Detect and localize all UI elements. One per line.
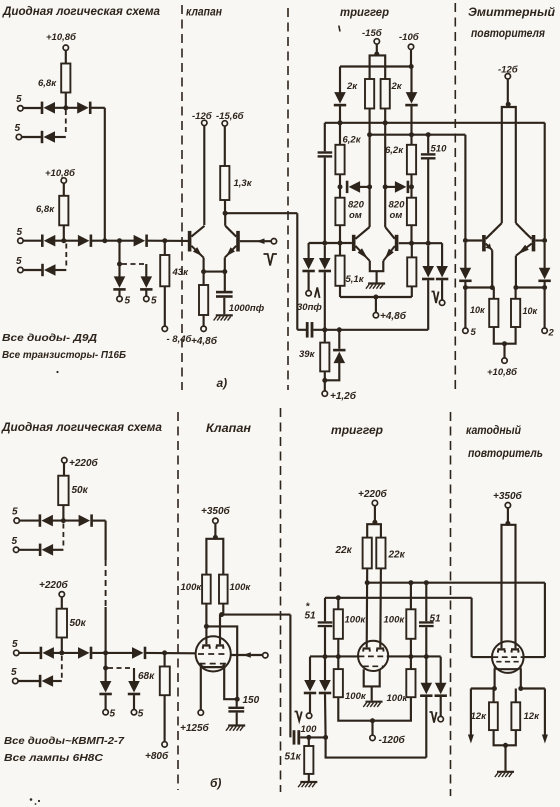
node j4 bbox=[162, 238, 167, 243]
svg-text:5: 5 bbox=[12, 639, 18, 650]
transistor Q4 (trigger right) bbox=[383, 227, 398, 261]
wire -12V rail bbox=[203, 126, 205, 225]
output wire left with arrow bbox=[468, 689, 474, 744]
wire bbox=[503, 344, 505, 358]
diode D7 (input row4) bbox=[41, 264, 55, 276]
wire bbox=[338, 330, 340, 349]
coupling capacitor 51 (left) bbox=[305, 602, 333, 628]
wire corner down bbox=[105, 521, 107, 560]
terminal -15V (trigger) bbox=[362, 28, 383, 44]
svg-text:100к: 100к bbox=[345, 691, 367, 702]
clamp diode (b right) bbox=[128, 681, 140, 695]
terminal +10.8V (block1) bbox=[46, 32, 77, 50]
diode D2 (series, row1) bbox=[77, 102, 91, 114]
bias resistor (right) bbox=[407, 257, 416, 286]
svg-text:+4,8б: +4,8б bbox=[191, 335, 218, 347]
svg-text:повторитель: повторитель bbox=[468, 448, 543, 460]
wire valve output to trigger bbox=[225, 212, 297, 214]
svg-text:5: 5 bbox=[138, 709, 144, 720]
input terminal (trigger left) bbox=[306, 291, 311, 296]
wire bbox=[339, 174, 341, 197]
V1 cathode lead left bbox=[200, 666, 202, 710]
svg-text:5: 5 bbox=[125, 296, 131, 307]
wire bbox=[544, 243, 546, 268]
wire bbox=[324, 694, 327, 737]
ground (51k) bbox=[298, 782, 317, 787]
collector wire (left) bbox=[369, 109, 371, 228]
wire bbox=[410, 106, 412, 135]
diode (b-row3) bbox=[40, 647, 54, 659]
diode (b-row4) bbox=[39, 675, 53, 687]
node bbox=[502, 341, 507, 346]
wire bbox=[339, 243, 341, 256]
cross line2 corner to left base bbox=[464, 135, 466, 241]
svg-text:6,8к: 6,8к bbox=[36, 204, 55, 215]
wire bbox=[371, 686, 373, 700]
input terminal (b trigger right) bbox=[438, 716, 443, 721]
svg-text:2к: 2к bbox=[346, 81, 358, 92]
wire bbox=[22, 136, 41, 138]
svg-text:39к: 39к bbox=[299, 349, 316, 360]
capacitor 1000pF bbox=[216, 291, 265, 314]
resistor 50k (block1) bbox=[58, 476, 88, 505]
wire bbox=[337, 639, 339, 657]
svg-text:+125б: +125б bbox=[180, 722, 210, 734]
svg-text:5: 5 bbox=[15, 123, 21, 134]
output terminal 5 (follower) bbox=[463, 327, 477, 338]
input terminal 5 (b-row3) bbox=[12, 639, 19, 656]
node bbox=[409, 241, 414, 246]
cross line 2 (bottom) bbox=[325, 597, 472, 599]
svg-text:5: 5 bbox=[151, 296, 157, 307]
steering diode (left) bbox=[334, 92, 346, 106]
wire left grid bbox=[472, 656, 493, 658]
node bbox=[383, 120, 388, 125]
node bbox=[408, 580, 413, 585]
svg-text:1,3к: 1,3к bbox=[234, 178, 253, 189]
resistor 39k bbox=[299, 343, 329, 372]
svg-text:6,8к: 6,8к bbox=[38, 78, 57, 89]
wire bbox=[516, 223, 525, 232]
resistor 820 ohm (left) bbox=[335, 198, 364, 226]
strobe terminal (valve) bbox=[271, 239, 276, 244]
wire bbox=[506, 730, 516, 745]
svg-text:100: 100 bbox=[301, 724, 318, 735]
wire bbox=[515, 256, 517, 288]
node bbox=[338, 120, 343, 125]
wire bbox=[23, 269, 41, 271]
resistor 6.2k (right) bbox=[385, 145, 416, 175]
svg-text:5: 5 bbox=[11, 667, 17, 678]
svg-text:+10,8б: +10,8б bbox=[487, 367, 518, 378]
input terminal 5 (row4) bbox=[16, 256, 23, 273]
wire base left bbox=[465, 239, 482, 241]
terminal -120V bbox=[370, 734, 406, 746]
node bbox=[365, 580, 370, 585]
wire bbox=[63, 463, 65, 476]
svg-text:триггер: триггер bbox=[331, 425, 383, 437]
wire Q2 emitter bbox=[224, 258, 226, 272]
svg-text:+350б: +350б bbox=[201, 505, 231, 517]
wire bbox=[145, 291, 147, 297]
wire bbox=[118, 291, 120, 297]
wire bbox=[325, 363, 340, 381]
wire bbox=[425, 627, 427, 656]
separator between trigger and follower (top) bbox=[454, 3, 456, 390]
input terminal 5 (b-row2) bbox=[12, 536, 19, 553]
through diode (b right) bbox=[420, 683, 432, 697]
wire bbox=[308, 737, 310, 746]
wire bbox=[376, 44, 378, 55]
terminal 5 (clamp right) bbox=[144, 296, 157, 307]
svg-text:-15,6б: -15,6б bbox=[216, 111, 245, 122]
steering diode (right) bbox=[405, 92, 417, 106]
wire bbox=[296, 213, 298, 330]
wire bbox=[53, 549, 64, 551]
node bbox=[409, 132, 414, 137]
node bbox=[323, 654, 328, 659]
coupling capacitor 51 (right) bbox=[419, 614, 441, 628]
wire bbox=[19, 549, 39, 551]
wire bbox=[324, 657, 326, 681]
strobe wire (b valve) bbox=[231, 654, 263, 656]
terminal +350V (follower) bbox=[493, 490, 523, 508]
svg-text:+220б: +220б bbox=[358, 488, 388, 500]
wire bbox=[324, 627, 326, 656]
node bbox=[463, 285, 468, 290]
wire bbox=[289, 615, 291, 738]
wire bbox=[427, 280, 429, 330]
node bbox=[367, 132, 372, 137]
dashed tie bbox=[61, 656, 63, 679]
terminal +350V (valve) bbox=[201, 505, 231, 524]
through diode (right) bbox=[422, 266, 434, 280]
V1 cathode lead right bbox=[224, 666, 237, 699]
wire bbox=[464, 282, 466, 328]
diode (b-row2) bbox=[39, 544, 53, 556]
svg-text:+4,8б: +4,8б bbox=[380, 310, 407, 322]
coupling capacitor 510 bbox=[421, 144, 447, 160]
node bbox=[424, 580, 429, 585]
node j2 bbox=[61, 238, 66, 243]
resistor 820 ohm (right) bbox=[389, 198, 417, 226]
V2 cathode bbox=[364, 669, 380, 686]
input diode (right outer) bbox=[436, 266, 448, 280]
V1 grid1 dashes bbox=[198, 653, 229, 655]
note: all diodes D9D bbox=[2, 332, 97, 344]
wire bbox=[324, 598, 326, 622]
resistor 12k (right) bbox=[511, 702, 540, 730]
input diode (b trigger left outer) bbox=[304, 680, 316, 694]
V2 anode plates bbox=[362, 647, 384, 651]
dashed link bbox=[108, 667, 132, 669]
svg-text:100к: 100к bbox=[387, 693, 409, 704]
wire bbox=[324, 246, 326, 259]
resistor 6.8k (block1) bbox=[38, 64, 70, 93]
cross line1 corner to right base bbox=[544, 123, 546, 241]
terminal +1.2V bbox=[322, 390, 357, 402]
wire bbox=[23, 107, 41, 109]
wire bbox=[425, 583, 427, 622]
wire bbox=[236, 713, 238, 725]
node bbox=[322, 378, 327, 383]
wire bbox=[63, 183, 65, 196]
wire bbox=[427, 246, 429, 267]
wire bbox=[507, 508, 509, 525]
input capacitor 30pF bbox=[306, 322, 314, 338]
label a) bbox=[217, 376, 228, 390]
svg-text:+10,8б: +10,8б bbox=[45, 168, 76, 179]
resistor 51k bbox=[285, 746, 314, 774]
section title: emitter follower (top) bbox=[468, 7, 555, 40]
wire bbox=[505, 327, 516, 344]
wire bbox=[224, 200, 226, 213]
diode D5 (series) bbox=[78, 235, 92, 247]
wire bbox=[504, 745, 506, 771]
transistor Q3 (trigger left) bbox=[352, 227, 370, 261]
bias wire +4.8V bbox=[340, 296, 412, 298]
svg-text:-15б: -15б bbox=[362, 28, 383, 39]
wire bbox=[411, 286, 413, 297]
wire bbox=[219, 615, 221, 645]
V1 cathode dish bbox=[201, 663, 225, 667]
output wire right with arrow bbox=[542, 689, 548, 744]
svg-text:50к: 50к bbox=[72, 485, 89, 496]
svg-text:6,2к: 6,2к bbox=[385, 145, 404, 156]
wire bbox=[493, 288, 495, 299]
svg-text:ом: ом bbox=[390, 210, 403, 221]
output diode (left) bbox=[459, 268, 471, 282]
svg-text:820: 820 bbox=[348, 200, 365, 211]
wire bbox=[324, 371, 326, 391]
diode series (b1) bbox=[79, 514, 93, 526]
node bbox=[103, 650, 108, 655]
node bbox=[463, 238, 468, 243]
wire bbox=[337, 598, 339, 610]
svg-text:1000пф: 1000пф bbox=[229, 303, 265, 314]
node bbox=[338, 241, 343, 246]
node bbox=[372, 520, 377, 525]
node j3 from block1 bbox=[102, 238, 107, 243]
svg-text:5: 5 bbox=[17, 227, 23, 238]
wire bbox=[55, 107, 78, 109]
wire bbox=[339, 123, 341, 145]
ground (b follower) bbox=[495, 772, 514, 777]
node bbox=[373, 295, 378, 300]
resistor 6.8k (block2) bbox=[36, 196, 68, 226]
bottom wire (b trigger) bbox=[326, 737, 427, 757]
terminal -15.6V bbox=[216, 111, 245, 126]
wire bbox=[236, 699, 238, 706]
resistor 22k (left) bbox=[335, 538, 372, 569]
scan artifact dot mid-left bbox=[56, 371, 58, 373]
clamp diode D9 bbox=[140, 276, 152, 290]
node hang tap bbox=[117, 238, 122, 243]
svg-text:10к: 10к bbox=[470, 305, 485, 315]
wire bbox=[375, 297, 377, 313]
transistor Q2 (valve right) bbox=[225, 226, 240, 258]
resistor 5.1k bbox=[335, 256, 364, 286]
input terminal 5 (row1) bbox=[16, 94, 23, 111]
coupling capacitor 100pF bbox=[293, 730, 301, 744]
wire bbox=[118, 241, 120, 264]
wire bbox=[494, 730, 506, 745]
wire bbox=[203, 315, 205, 326]
resistor 10k (left) bbox=[470, 299, 498, 327]
node bbox=[322, 327, 327, 332]
wire bbox=[133, 695, 135, 710]
wire bbox=[471, 687, 495, 689]
tube V1 (valve) bbox=[196, 636, 231, 671]
svg-text:5: 5 bbox=[110, 709, 116, 720]
input terminal (trigger right) bbox=[439, 300, 444, 305]
wire bbox=[205, 604, 207, 645]
resistor 100k (valve left) bbox=[181, 575, 211, 604]
terminal +4.8V (trigger) bbox=[373, 310, 407, 322]
node bbox=[323, 735, 328, 740]
separator between valve and trigger (top) bbox=[287, 8, 289, 390]
wire main2 segment bbox=[55, 240, 79, 242]
wire base right bbox=[535, 239, 544, 241]
svg-text:2к: 2к bbox=[391, 81, 403, 92]
svg-text:5: 5 bbox=[471, 327, 477, 338]
wire bbox=[337, 657, 339, 670]
node e2 bbox=[222, 269, 227, 274]
svg-text:100к: 100к bbox=[230, 582, 252, 593]
node j1 bbox=[63, 105, 68, 110]
resistor 6.2k (left) bbox=[335, 135, 361, 175]
rail split (follower) bbox=[502, 107, 516, 223]
note: all transistors P16B bbox=[2, 349, 127, 361]
tube V3 (follower) bbox=[492, 641, 524, 673]
wire to valve base bbox=[148, 240, 188, 242]
resistor 4.3k to +4.8V bbox=[199, 285, 208, 315]
grid line left bbox=[310, 655, 360, 657]
node bbox=[204, 624, 209, 629]
ground (trigger) bbox=[366, 284, 385, 289]
wire bbox=[441, 243, 443, 266]
node bbox=[219, 612, 224, 617]
dashed tie row4 to j2 bbox=[65, 244, 67, 269]
label 30pF bbox=[297, 302, 322, 313]
transistor Q1 (valve left) bbox=[188, 226, 205, 258]
node bbox=[370, 718, 375, 723]
resistor 12k (left) bbox=[471, 702, 498, 730]
svg-text:10к: 10к bbox=[523, 306, 538, 316]
wire -10V bar bbox=[340, 65, 411, 67]
terminal +220V (block1) bbox=[62, 457, 99, 469]
base line left bbox=[309, 242, 352, 244]
section title: trigger (top) bbox=[340, 7, 389, 19]
note: all tubes 6N8S bbox=[4, 752, 103, 764]
wire bbox=[222, 604, 224, 615]
svg-text:51к: 51к bbox=[285, 752, 302, 763]
wire bbox=[360, 186, 370, 188]
V2 grid dashes bbox=[359, 656, 388, 666]
terminal -10V (trigger) bbox=[399, 32, 420, 50]
terminal 5 (clamp left) bbox=[117, 296, 131, 307]
capacitor 150 bbox=[228, 695, 259, 713]
terminal +125V bbox=[180, 710, 210, 734]
node e1 bbox=[201, 269, 206, 274]
through diode (left) bbox=[319, 258, 331, 272]
wire bbox=[308, 243, 310, 259]
wire bbox=[339, 67, 341, 93]
wire bbox=[338, 697, 372, 721]
emitter junction U bbox=[370, 261, 384, 271]
resistor 22k (right) bbox=[376, 538, 405, 569]
svg-text:+1,2б: +1,2б bbox=[330, 390, 357, 402]
svg-text:Диодная логическая схема: Диодная логическая схема bbox=[2, 6, 161, 18]
wire right grid bbox=[523, 656, 545, 658]
wire bbox=[410, 135, 412, 145]
wire bbox=[371, 721, 373, 736]
strobe arrow (valve) bbox=[257, 238, 265, 244]
svg-text:ом: ом bbox=[349, 210, 362, 221]
wire corner down to main2 bbox=[104, 108, 106, 241]
svg-text:-12б: -12б bbox=[498, 65, 519, 76]
terminal 5 (b clamp right) bbox=[131, 709, 144, 720]
node bbox=[336, 654, 341, 659]
wire bbox=[309, 694, 311, 713]
wire bbox=[92, 240, 134, 242]
wire bbox=[224, 272, 226, 291]
coupling diode row (right) bbox=[395, 181, 409, 193]
wire bbox=[440, 697, 442, 717]
pulse symbol (trigger left) bbox=[315, 288, 320, 299]
wire bbox=[493, 689, 495, 703]
terminal +10.8V (block2) bbox=[45, 168, 76, 183]
wire bbox=[105, 607, 107, 653]
diode D4 (input row3) bbox=[41, 235, 55, 247]
wire bbox=[53, 680, 62, 682]
node bbox=[306, 735, 311, 740]
svg-text:+220б: +220б bbox=[39, 579, 69, 591]
wire bbox=[427, 160, 429, 244]
ground (b valve) bbox=[226, 726, 245, 731]
svg-text:Все диоды- Д9Д: Все диоды- Д9Д bbox=[2, 332, 97, 344]
node bbox=[338, 184, 343, 189]
svg-text:а): а) bbox=[217, 376, 228, 390]
through diode (b left) bbox=[319, 680, 331, 694]
svg-text:б): б) bbox=[210, 776, 221, 790]
diode D1 (input row1) bbox=[41, 102, 55, 114]
svg-text:5: 5 bbox=[12, 507, 18, 518]
wire bbox=[55, 136, 66, 138]
separator logic/valve (bottom) bbox=[177, 412, 179, 790]
wire bbox=[464, 243, 466, 268]
diode (b-row1) bbox=[39, 514, 53, 526]
dashed link bbox=[122, 263, 144, 265]
separator between logic and valve (top) bbox=[181, 5, 183, 390]
scan artifact dots bottom-left bbox=[30, 798, 40, 805]
svg-text:50к: 50к bbox=[70, 618, 87, 629]
wire bbox=[385, 186, 395, 188]
wire bbox=[297, 329, 306, 331]
node bbox=[383, 184, 388, 189]
wire bbox=[61, 638, 63, 653]
wire emitters bbox=[204, 271, 225, 273]
node hang bbox=[117, 262, 122, 267]
input terminal 5 (b-row1) bbox=[12, 507, 19, 524]
wire bbox=[515, 288, 517, 299]
node bbox=[336, 595, 341, 600]
svg-text:820: 820 bbox=[389, 200, 406, 211]
transistor Q5 (follower left) bbox=[482, 232, 492, 251]
node bbox=[506, 102, 511, 107]
input terminal 5 (b-row4) bbox=[11, 667, 18, 684]
resistor 100k (row2 right) bbox=[387, 669, 416, 704]
